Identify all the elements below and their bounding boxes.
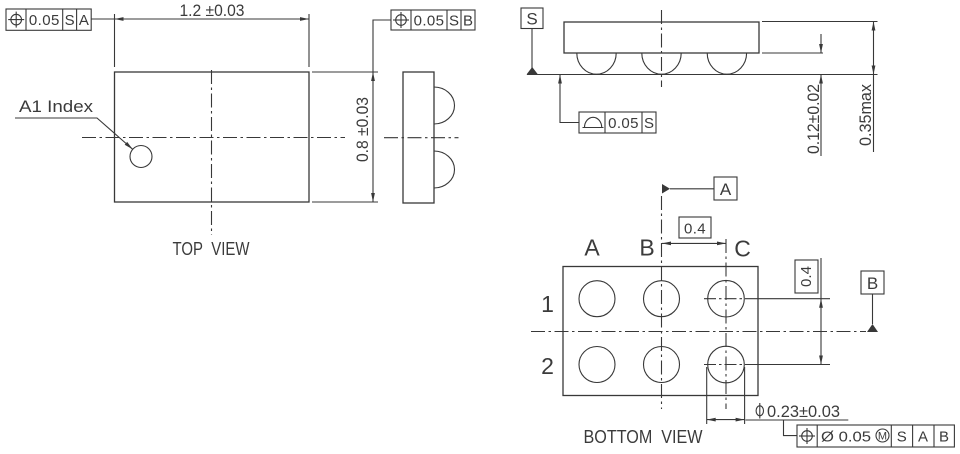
- dimension 1.2 ±0.03: [91, 1, 309, 67]
- svg-text:B: B: [463, 13, 473, 30]
- top view vertical centerline: [211, 70, 213, 235]
- row 2 horizontal line through C2: [704, 364, 752, 366]
- svg-text:TOP VIEW: TOP VIEW: [173, 239, 250, 259]
- dimension 0.4 horizontal (B to C): [662, 217, 726, 245]
- seating plane line: [527, 74, 878, 76]
- extension line body top: [762, 21, 878, 23]
- svg-text:0.8 ±0.03: 0.8 ±0.03: [353, 97, 372, 162]
- svg-text:S: S: [644, 115, 654, 132]
- datum B flag: [861, 271, 884, 332]
- column B vertical centerline: [661, 196, 663, 409]
- svg-text:B: B: [639, 235, 654, 261]
- ball A1: [579, 281, 615, 317]
- column C vertical centerline: [725, 239, 727, 409]
- row 1 horizontal line through C1: [704, 298, 752, 300]
- svg-text:S: S: [526, 9, 537, 28]
- dimension 0.4 vertical (row1 to row2): [795, 258, 823, 365]
- feature control frame FCF1 (position 0.05 S A): [6, 9, 91, 30]
- svg-text:S: S: [449, 13, 459, 30]
- svg-text:A: A: [918, 429, 928, 446]
- datum S symbol: [521, 8, 543, 75]
- svg-text:S: S: [897, 429, 907, 446]
- dimension 0.8 ±0.03 with leader to FCF2: [312, 20, 391, 202]
- svg-text:0.05: 0.05: [608, 115, 639, 132]
- top view package outline: [115, 72, 310, 202]
- svg-text:A: A: [720, 180, 732, 199]
- dimension 0.12±0.02: [804, 34, 823, 156]
- dimension 0.35max: [856, 22, 875, 153]
- side view bump ball 2: [434, 151, 454, 188]
- top view horizontal centerline: [82, 137, 345, 139]
- svg-text:B: B: [867, 274, 878, 293]
- front view ball 3: [707, 53, 746, 74]
- front view ball 2: [642, 53, 681, 74]
- svg-text:0.05: 0.05: [29, 12, 60, 29]
- svg-text:M: M: [878, 431, 887, 443]
- ball B2: [644, 347, 680, 383]
- svg-text:Ø 0.05: Ø 0.05: [821, 429, 871, 446]
- svg-text:1: 1: [541, 291, 554, 317]
- svg-text:1.2 ±0.03: 1.2 ±0.03: [180, 1, 245, 20]
- A1 index pin circle: [130, 146, 152, 168]
- side view horizontal centerline: [384, 137, 459, 139]
- svg-text:A: A: [79, 12, 89, 29]
- ball C1: [708, 280, 745, 317]
- side view bump ball 1: [434, 87, 454, 124]
- front view body outline: [564, 22, 759, 53]
- svg-text:0.4: 0.4: [684, 221, 706, 238]
- svg-text:0.4: 0.4: [798, 266, 815, 287]
- side view body outline: [403, 72, 434, 203]
- dimension ϕ0.23±0.03: [707, 367, 849, 436]
- svg-text:0.23±0.03: 0.23±0.03: [767, 402, 840, 421]
- svg-text:A: A: [584, 235, 600, 261]
- svg-text:A1 Index: A1 Index: [19, 97, 94, 116]
- seating plane flatness frame (0.05 S): [558, 75, 656, 134]
- bottom view package outline: [563, 267, 758, 396]
- feature control frame FCF3 (position Ø0.05 M S A B): [797, 425, 954, 447]
- bottom view main horizontal centerline: [531, 331, 866, 333]
- ball B1: [644, 281, 680, 317]
- svg-text:B: B: [939, 429, 949, 446]
- svg-text:S: S: [65, 12, 75, 29]
- front view ball 1: [577, 53, 616, 74]
- front view vertical centerline: [661, 10, 663, 87]
- svg-text:0.05: 0.05: [414, 13, 445, 30]
- svg-text:0.35max: 0.35max: [856, 84, 875, 146]
- A1 Index label and leader: [15, 97, 133, 149]
- svg-text:C: C: [734, 236, 751, 262]
- svg-text:BOTTOM VIEW: BOTTOM VIEW: [584, 427, 703, 447]
- datum A flag: [662, 177, 737, 200]
- svg-text:0.12±0.02: 0.12±0.02: [804, 84, 823, 154]
- feature control frame FCF2 (position 0.05 S B): [391, 10, 475, 30]
- ball A2: [579, 347, 615, 383]
- ball C2: [708, 346, 745, 383]
- svg-text:2: 2: [541, 353, 554, 379]
- extension line body bottom: [762, 52, 823, 54]
